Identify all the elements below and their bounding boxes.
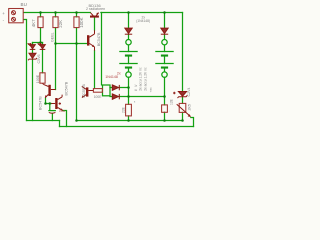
- svg-text:(1N4148): (1N4148): [136, 19, 150, 23]
- svg-text:100K: 100K: [79, 17, 84, 27]
- svg-text:2x accu 1.2V nc: 2x accu 1.2V nc: [138, 67, 142, 91]
- svg-text:10u: 10u: [59, 109, 65, 113]
- svg-text:BC547B: BC547B: [97, 32, 101, 46]
- svg-text:C2V4: C2V4: [187, 88, 191, 97]
- svg-text:12E: 12E: [169, 98, 173, 105]
- svg-text:100E: 100E: [94, 95, 103, 99]
- svg-text:1N4148: 1N4148: [105, 75, 118, 79]
- svg-text:+ac: +ac: [149, 87, 153, 93]
- svg-text:2K5: 2K5: [187, 104, 191, 110]
- svg-text:2 radiatoren: 2 radiatoren: [86, 7, 105, 11]
- svg-text:22E: 22E: [122, 106, 126, 113]
- svg-text:BC557B: BC557B: [82, 84, 86, 98]
- svg-text:22K: 22K: [58, 20, 63, 28]
- svg-text:4K7: 4K7: [31, 19, 36, 27]
- svg-text:+: +: [2, 11, 5, 16]
- svg-text:BC547B: BC547B: [38, 96, 42, 110]
- svg-text:2x accu 1.2V nc: 2x accu 1.2V nc: [144, 67, 148, 91]
- svg-text:BC547B: BC547B: [64, 81, 68, 95]
- svg-text:C5V6: C5V6: [37, 55, 41, 64]
- svg-text:BU: BU: [21, 2, 27, 7]
- svg-text:100E: 100E: [36, 74, 40, 83]
- svg-text:.: .: [167, 111, 171, 112]
- svg-text:GEEL: GEEL: [51, 32, 55, 42]
